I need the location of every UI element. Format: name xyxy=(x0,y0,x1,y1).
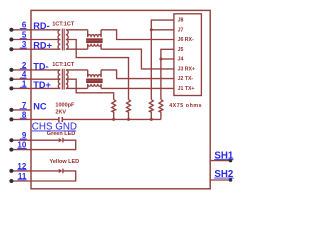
LED D1 green diode xyxy=(59,138,63,142)
junction R2 bus xyxy=(127,118,130,121)
wire J8 with vertical to R3 xyxy=(151,20,174,99)
svg-text:J8: J8 xyxy=(178,18,184,24)
junction J7 xyxy=(150,28,153,31)
svg-text:RD-: RD- xyxy=(33,21,49,31)
svg-text:J6 RX-: J6 RX- xyxy=(178,37,194,43)
svg-text:J2 TX-: J2 TX- xyxy=(178,76,194,82)
pin dot 11 xyxy=(9,179,13,183)
wire TX- from choke to J2 xyxy=(101,70,174,79)
wire pin5 center tap xyxy=(11,39,60,41)
svg-text:4X75 ohms: 4X75 ohms xyxy=(169,103,202,109)
module outline box xyxy=(31,10,210,188)
wire SH2 stub xyxy=(210,179,232,181)
wire RX+ from choke to J3 xyxy=(101,49,174,69)
pin dot SH1 xyxy=(229,159,233,163)
wire T2 secondary bottom lead xyxy=(66,87,88,89)
transformer T2 secondary winding xyxy=(66,70,68,89)
wire T2 secondary center tap to R1 xyxy=(66,79,114,99)
resistor R3 xyxy=(149,100,153,120)
transformer T1 core xyxy=(62,29,64,51)
svg-text:J1 TX+: J1 TX+ xyxy=(178,86,195,92)
pin dot 9 xyxy=(9,138,13,142)
resistor R4 xyxy=(159,100,163,120)
choke L1 top winding xyxy=(88,30,101,37)
pin dot 8 xyxy=(9,117,13,121)
LED D2 yellow circuit wire xyxy=(11,171,75,181)
resistor R1 xyxy=(112,100,116,120)
pin dot 4 xyxy=(9,77,13,81)
svg-text:TD-: TD- xyxy=(33,61,48,71)
junction R1 bus xyxy=(112,118,115,121)
wire T2 secondary top lead xyxy=(66,69,88,71)
wire T1 secondary center tap to R2 xyxy=(66,40,129,100)
transformer T2 core xyxy=(62,69,64,90)
svg-text:1000pF: 1000pF xyxy=(55,103,75,109)
choke L1 bottom winding xyxy=(88,44,101,50)
wire TX+ from choke to J1 xyxy=(101,87,174,89)
choke L2 top winding xyxy=(88,70,101,77)
svg-text:NC: NC xyxy=(33,101,47,111)
choke L1 core xyxy=(86,38,102,43)
pin dot 6 xyxy=(9,28,13,32)
wire pin1 TD+ xyxy=(11,87,60,89)
termination bus wire xyxy=(62,118,161,120)
wire pin6 RD- xyxy=(11,29,60,31)
pin dot 1 xyxy=(9,86,13,90)
wire J5 with vertical to R4 xyxy=(161,49,174,99)
pin dot 5 xyxy=(9,38,13,42)
pin dot 7 xyxy=(9,108,13,112)
connector box J1-J8 xyxy=(174,14,202,96)
wire pin2 TD- xyxy=(11,69,60,71)
svg-text:RD+: RD+ xyxy=(33,41,52,51)
wire T1 secondary top lead xyxy=(66,29,88,31)
svg-text:J7: J7 xyxy=(178,27,184,33)
wire SH1 stub xyxy=(210,160,232,162)
svg-text:Yellow LED: Yellow LED xyxy=(50,159,80,165)
pin dot 10 xyxy=(9,148,13,152)
transformer T2 primary winding xyxy=(58,70,60,89)
capacitor C1 1000pF 2KV xyxy=(59,117,62,122)
pin dot SH2 xyxy=(229,178,233,182)
wire pin4 center tap xyxy=(11,78,60,80)
junction J4 xyxy=(159,58,162,61)
svg-text:1CT:1CT: 1CT:1CT xyxy=(52,62,75,68)
resistor R2 xyxy=(127,100,131,120)
choke L2 core xyxy=(86,79,102,84)
wire pin3 RD+ xyxy=(11,48,60,50)
svg-text:2KV: 2KV xyxy=(55,109,66,115)
pin dot 3 xyxy=(9,47,13,51)
wire RX- from choke to J6 xyxy=(101,30,174,40)
junction R3 bus xyxy=(150,118,153,121)
wire pin7 NC stub xyxy=(11,109,31,111)
wire pin8 CHS GND to capacitor xyxy=(11,118,59,120)
svg-text:1CT:1CT: 1CT:1CT xyxy=(52,21,75,27)
pin dot 2 xyxy=(9,68,13,72)
transformer T1 secondary winding xyxy=(66,30,68,49)
svg-text:J3 RX+: J3 RX+ xyxy=(178,67,195,73)
svg-text:J5: J5 xyxy=(178,47,184,53)
wire J7 xyxy=(151,29,174,31)
wire T1 secondary bottom lead xyxy=(66,48,88,50)
transformer T1 primary winding xyxy=(58,30,60,49)
svg-text:J4: J4 xyxy=(178,57,184,63)
LED D2 yellow diode xyxy=(59,169,63,173)
svg-text:TD+: TD+ xyxy=(33,80,51,90)
choke L2 bottom winding xyxy=(88,84,101,89)
pin dot 12 xyxy=(9,169,13,173)
LED D1 green circuit wire xyxy=(11,140,75,149)
wire J4 xyxy=(161,58,174,60)
